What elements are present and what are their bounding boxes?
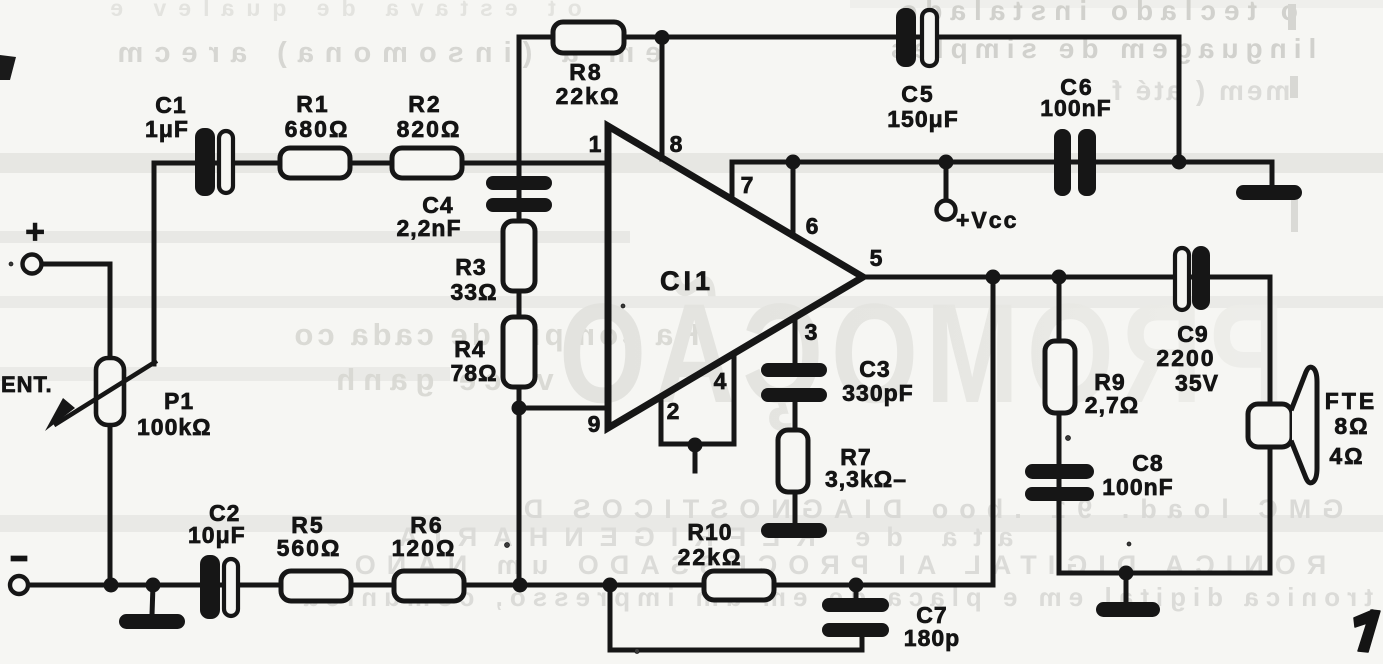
capacitor C6 plates (1054, 129, 1096, 196)
node: junction Vcc rail / pin6 (786, 155, 801, 170)
svg-text:100nF: 100nF (1102, 474, 1173, 500)
svg-text:5: 5 (870, 245, 883, 271)
svg-text:120Ω: 120Ω (392, 535, 457, 561)
wire: input ground stub (152, 585, 153, 615)
label C9 (1156, 321, 1219, 396)
svg-text:C1: C1 (155, 92, 186, 118)
node: junction minus rail / pin9 branch (513, 578, 528, 593)
label R2 (397, 91, 462, 142)
svg-text:+Vcc: +Vcc (956, 207, 1018, 233)
ground: input (119, 614, 185, 629)
node: junction bracket (688, 438, 703, 453)
wire: pin4 stub (732, 354, 737, 444)
node: junction output / R9 (1052, 270, 1067, 285)
capacitor C3 plates (761, 363, 827, 402)
svg-text:35V: 35V (1175, 370, 1219, 396)
wire: R7 to ground (793, 491, 798, 524)
svg-text:3,3kΩ–: 3,3kΩ– (825, 466, 907, 492)
potentiometer P1 wiper arrow (45, 362, 155, 431)
wire: P1 bottom to minus rail (108, 424, 113, 585)
resistor R8 body (553, 22, 624, 53)
wire: top rail from R8-left corner down to main input line (vertical at x=519) (517, 37, 522, 585)
svg-text:R2: R2 (408, 91, 441, 117)
op-amp CI1 triangle (608, 126, 863, 428)
page edge artifacts (0, 4, 1298, 232)
node: junction Vcc rail / C5 branch (1172, 155, 1187, 170)
svg-text:10μF: 10μF (188, 522, 246, 548)
pin number 7 (741, 172, 754, 198)
svg-text:1μF: 1μF (145, 116, 189, 142)
svg-text:C9: C9 (1177, 321, 1208, 347)
capacitor C4 plates (486, 176, 552, 212)
wire: pin6 vertical (791, 162, 796, 236)
svg-text:R1: R1 (296, 91, 329, 117)
label +Vcc (956, 207, 1018, 233)
svg-text:P1: P1 (164, 388, 194, 414)
svg-text:FTE: FTE (1325, 388, 1377, 414)
pin number 9 (588, 411, 601, 437)
terminal: +Vcc open circle (937, 201, 956, 220)
svg-text:680Ω: 680Ω (285, 116, 350, 142)
capacitor C9 plates (1175, 246, 1210, 310)
wire: R9/C8 branch vertical (1057, 277, 1062, 573)
svg-text:22kΩ: 22kΩ (556, 83, 621, 109)
capacitor C7 plates (822, 598, 889, 637)
pin number 8 (670, 131, 683, 157)
svg-text:C3: C3 (859, 356, 890, 382)
svg-text:820Ω: 820Ω (397, 116, 462, 142)
node: junction top rail / pin8 (655, 30, 670, 45)
node: junction minus rail / P1 bottom (104, 578, 119, 593)
svg-text:78Ω: 78Ω (450, 360, 497, 386)
label R4 (450, 336, 497, 386)
label R6 (392, 512, 457, 561)
node: junction minus rail / C7 top (849, 578, 864, 593)
svg-text:33Ω: 33Ω (450, 279, 497, 305)
svg-text:2: 2 (667, 398, 680, 424)
label C5 (887, 81, 959, 132)
resistor R3 body (503, 221, 535, 291)
label R5 (277, 512, 342, 561)
wire: feedback vertical from output to R10 rail (991, 277, 996, 585)
pin number 5 (870, 245, 883, 271)
resistor R10 body (704, 571, 774, 600)
pin number 3 (805, 319, 818, 345)
svg-text:ENT.: ENT. (1, 372, 53, 397)
resistor R6 body (394, 571, 464, 601)
svg-text:6: 6 (806, 213, 819, 239)
svg-text:R4: R4 (454, 336, 485, 362)
wire: C3 to R7 (793, 401, 798, 431)
capacitor C2 plates (200, 555, 238, 619)
terminal: + input circle (23, 255, 42, 274)
resistor R1 body (280, 148, 350, 178)
wire: pin2-pin4 bracket (661, 442, 734, 447)
label R1 (285, 91, 350, 142)
svg-text:C5: C5 (901, 81, 934, 107)
label P1 (137, 388, 212, 440)
svg-text:8: 8 (670, 131, 683, 157)
wire: minus input rail (28, 583, 993, 588)
label ENT. (1, 372, 53, 397)
svg-text:R8: R8 (569, 59, 602, 85)
ground: bottom right (1096, 602, 1160, 617)
pin number 2 (667, 398, 680, 424)
label + terminal (25, 213, 45, 251)
capacitor C1 plates (195, 128, 233, 196)
svg-text:2,7Ω: 2,7Ω (1085, 392, 1139, 418)
node: junction bottom right rail / ground (1119, 566, 1134, 581)
ground: below R7 (761, 523, 827, 538)
pin number 1 (589, 131, 602, 157)
wire: top rail horizontal through R8 and C5 to right corner (519, 37, 1179, 162)
wire: Vcc rail pin7 corner to top-right ground (732, 162, 1272, 199)
label R8 (556, 59, 621, 109)
label C4 (396, 192, 461, 241)
svg-text:3: 3 (805, 319, 818, 345)
capacitor C8 plates (1025, 464, 1094, 501)
terminal: - input circle (10, 576, 28, 594)
resistor R9 body (1045, 341, 1075, 413)
wire: output rail pin5 to speaker (863, 277, 1270, 404)
potentiometer P1 body (96, 358, 124, 425)
label C1 (145, 92, 189, 142)
svg-text:180p: 180p (904, 625, 960, 651)
label - terminal (11, 556, 27, 561)
svg-text:150μF: 150μF (887, 106, 959, 132)
label R10 (678, 519, 743, 570)
label R3 (450, 254, 497, 305)
node: junction R4 / pin9 (512, 401, 527, 416)
label C3 (842, 356, 913, 406)
resistor R4 body (503, 317, 535, 387)
label R9 (1085, 369, 1139, 418)
ground: top right (1236, 185, 1302, 200)
svg-text:R10: R10 (687, 519, 732, 545)
svg-text:2200: 2200 (1156, 345, 1215, 371)
wire: C7 top stub (854, 585, 859, 599)
label C6 (1040, 74, 1111, 121)
label FTE (1325, 388, 1377, 469)
svg-text:330pF: 330pF (842, 380, 913, 406)
node: junction Vcc rail / +Vcc tap (939, 155, 954, 170)
svg-text:ot estava de qualev e: ot estava de qualev e (98, 0, 581, 21)
label CI1 (660, 266, 714, 296)
svg-text:GMC load. 91 .boo DIAGNOSTICOS: GMC load. 91 .boo DIAGNOSTICOS D (513, 494, 1344, 524)
svg-text:o teclado instalado: o teclado instalado (892, 0, 1298, 26)
pin number 4 (714, 368, 727, 394)
svg-text:7: 7 (741, 172, 754, 198)
svg-text:+: + (25, 213, 45, 251)
svg-text:2,2nF: 2,2nF (396, 215, 461, 241)
node: junction output / feedback (986, 270, 1001, 285)
wire: ground stub bottom right (1124, 573, 1129, 603)
svg-text:1: 1 (589, 131, 602, 157)
svg-text:R3: R3 (455, 254, 486, 280)
wire: left vertical from input line down to P1 wiper (152, 163, 157, 364)
label C2 (188, 500, 246, 548)
label R7 (825, 444, 907, 492)
wire: pin8 vertical from top rail to CI1 (660, 38, 665, 159)
wire: pin3 vertical to C3 (793, 318, 798, 364)
svg-text:100kΩ: 100kΩ (137, 414, 212, 440)
svg-text:22kΩ: 22kΩ (678, 544, 743, 570)
wire: +Vcc tap (944, 162, 949, 202)
pin number 6 (806, 213, 819, 239)
svg-text:4Ω: 4Ω (1329, 443, 1364, 469)
label C8 (1102, 450, 1173, 500)
svg-text:mem ( até f: mem ( até f (1110, 75, 1291, 106)
wire: bottom right rail C8 to speaker (1059, 446, 1270, 573)
figure number 1 (1354, 610, 1380, 652)
svg-text:560Ω: 560Ω (277, 535, 342, 561)
wire: bracket stub down (693, 445, 698, 471)
svg-text:9: 9 (588, 411, 601, 437)
wire: main input line C1..R2 to pin1 (154, 161, 608, 166)
wire: C7 lower detour (610, 585, 862, 650)
svg-text:100nF: 100nF (1040, 95, 1111, 121)
capacitor C5 plates (896, 8, 937, 67)
wire: pin9 horizontal (519, 406, 608, 411)
svg-text:8Ω: 8Ω (1334, 413, 1369, 439)
speaker FTE box (1248, 404, 1292, 447)
wire: pin2 stub (659, 397, 664, 444)
label C7 (904, 602, 960, 651)
svg-text:C8: C8 (1132, 450, 1163, 476)
resistor R2 body (392, 148, 462, 178)
resistor R7 body (778, 430, 808, 492)
stray dots (9, 262, 1131, 654)
wire: + terminal to P1 top (42, 264, 110, 359)
node: junction minus rail / input ground (146, 578, 161, 593)
resistor R5 body (281, 571, 351, 601)
svg-text:4: 4 (714, 368, 727, 394)
node: junction minus rail / C7 lower branch (603, 578, 618, 593)
speaker FTE cone (1292, 367, 1317, 483)
svg-text:CI1: CI1 (660, 266, 714, 296)
